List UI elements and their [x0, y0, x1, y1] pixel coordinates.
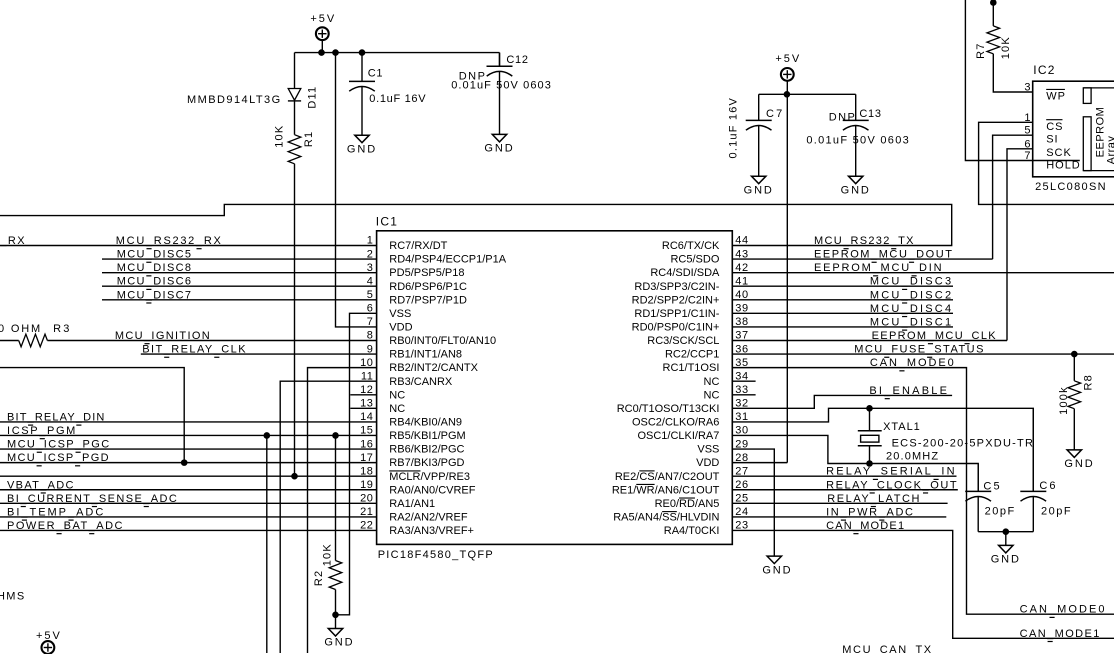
net label VBAT_ADC [7, 479, 75, 493]
svg-text:MCU_ICSP_PGD: MCU_ICSP_PGD [7, 452, 110, 464]
svg-text:CAN_MODE0: CAN_MODE0 [1020, 604, 1107, 616]
net label MCU_ICSP_PGD [7, 452, 110, 466]
resistor R2 value 10K [321, 543, 333, 566]
ground symbol under C13 [841, 176, 871, 196]
svg-text:RC0/T1OSO/T13CKI: RC0/T1OSO/T13CKI [617, 403, 720, 415]
capacitor C13 reference [859, 108, 881, 120]
wire pin 10 CANTX down off-page [308, 368, 377, 653]
capacitor C6 symbol [1020, 408, 1046, 531]
svg-text:RA1/AN1: RA1/AN1 [389, 498, 435, 510]
resistor R8 value 100k [1058, 386, 1070, 415]
junction dot right rail [784, 92, 790, 98]
ground symbol under C12 [484, 134, 514, 154]
svg-text:GND: GND [347, 143, 377, 155]
IC1 left pin labels and numbers 1-22 [360, 235, 507, 537]
net label MCU_ICSP_PGC [7, 439, 111, 453]
op IC2 25LC080 body [1033, 81, 1114, 177]
IC2 overlines (WP, CS, HOLD) [1033, 89, 1080, 160]
resistor R3 zigzag (0 OHM) [19, 334, 48, 347]
junction dot C5/C6 ground [1003, 529, 1009, 535]
svg-text:MCU_RS232_TX: MCU_RS232_TX [814, 235, 915, 247]
svg-text:RD2/SPP2/C2IN+: RD2/SPP2/C2IN+ [632, 294, 720, 306]
wire IC2 SCK (pin 6) to EEPROM_MCU_CLK [1007, 149, 1033, 341]
svg-text:NC: NC [704, 389, 720, 401]
svg-text:RB5/KBI1/PGM: RB5/KBI1/PGM [389, 430, 465, 442]
junction dot crystal bottom [867, 461, 873, 467]
svg-text:ECS-200-20-5PXDU-TR: ECS-200-20-5PXDU-TR [892, 437, 1035, 449]
junction dot PGD branch [181, 460, 187, 466]
svg-text:CS: CS [1046, 121, 1063, 133]
svg-text:IN_PWR_ADC: IN_PWR_ADC [826, 506, 915, 518]
svg-text:BI_ENABLE: BI_ENABLE [869, 385, 949, 397]
wire R7 top [992, 0, 994, 26]
junction dot ICSP_PGM/off-page drop [264, 433, 270, 439]
net label OHMS (cut at left edge) [0, 590, 26, 602]
svg-text:NC: NC [704, 376, 720, 388]
resistor R8 zigzag [1068, 381, 1081, 409]
svg-text:R2: R2 [313, 570, 325, 586]
capacitor C12 symbol [487, 53, 513, 135]
junction dot R1/MCLR [292, 473, 298, 479]
svg-text:MCU_DISC4: MCU_DISC4 [870, 303, 953, 315]
wire IC2 CS (pin 1) to right edge via bottom [979, 122, 1114, 204]
wire net MCU_IGNITION to pin 8 [47, 339, 376, 341]
svg-text:20pF: 20pF [985, 505, 1016, 517]
wire pin 28 VDD to +5V drop [732, 462, 787, 464]
svg-text:RD4/PSP4/ECCP1/P1A: RD4/PSP4/ECCP1/P1A [389, 254, 506, 266]
crystal XTAL1 reference [883, 421, 921, 433]
svg-text:CAN_MODE1: CAN_MODE1 [826, 520, 905, 532]
svg-text:RD6/PSP6/P1C: RD6/PSP6/P1C [389, 281, 467, 293]
svg-text:MCU_DISC8: MCU_DISC8 [117, 262, 193, 274]
capacitor C12 reference [506, 54, 528, 66]
net label POWER_BAT_ADC [7, 520, 124, 534]
svg-text:C7: C7 [766, 108, 784, 120]
wire net CAN_MODE0 (pin 35) down [732, 368, 1114, 615]
net label MCU_DISC2 [870, 289, 953, 303]
wire net MCU_DISC2 (pin 40) [732, 299, 953, 301]
resistor R1 value 10K [274, 125, 286, 148]
junction dot R2/VSS/ground [333, 612, 339, 618]
svg-text:C13: C13 [859, 108, 881, 120]
ground symbol under C5/C6 [991, 545, 1021, 565]
net label MCU_FUSE_STATUS [854, 344, 985, 358]
svg-text:IC2: IC2 [1033, 63, 1055, 77]
IC2 pin labels WP CS SI SCK HOLD and numbers [1024, 82, 1080, 172]
power +5V symbol (top right) [775, 53, 801, 81]
capacitor C1 value 0.1uF 16V [369, 93, 426, 105]
wire net EEPROM_MCU_DOUT (pin 43) [732, 258, 992, 260]
wire net MCU_DISC6 to pin 4 [102, 285, 377, 287]
svg-text:GND: GND [1064, 458, 1094, 470]
resistor R2 zigzag [329, 561, 342, 590]
net label BIT_RELAY_DIN [7, 411, 106, 425]
wire net MCU_IGNITION left segment [0, 339, 19, 341]
svg-text:20pF: 20pF [1041, 505, 1072, 517]
svg-text:20.0MHZ: 20.0MHZ [886, 450, 939, 462]
svg-text:VDD: VDD [696, 457, 719, 469]
pin 34 NC stub [732, 380, 755, 382]
wire net POWER_BAT_ADC to pin 22 [0, 529, 377, 531]
svg-text:RC1/T1OSI: RC1/T1OSI [663, 362, 720, 374]
svg-text:RC2/CCP1: RC2/CCP1 [665, 349, 719, 361]
svg-text:EEPROM_MCU_CLK: EEPROM_MCU_CLK [872, 330, 997, 342]
power +5V symbol (bottom left, cut) [36, 630, 62, 654]
wire net BI_TEMP_ADC to pin 21 [0, 516, 377, 518]
svg-text:10K: 10K [1000, 36, 1012, 59]
wire rail to C12 [499, 53, 501, 67]
svg-text:RELAY_LATCH: RELAY_LATCH [827, 493, 921, 505]
wire net MCU_ICSP_PGD to pin 17 [0, 462, 377, 464]
wire pin 6 VSS to ground bus [336, 313, 377, 614]
svg-text:GND: GND [744, 184, 774, 196]
wire pin 30 OSC1 to crystal bottom rail [732, 435, 978, 491]
net label BI_TEMP_ADC [7, 506, 105, 520]
wire R7 to IC2 WP pin 3 [993, 54, 1032, 92]
svg-text:RA3/AN3/VREF+: RA3/AN3/VREF+ [389, 525, 474, 537]
svg-text:MCU_DISC3: MCU_DISC3 [870, 276, 953, 288]
svg-text:IC1: IC1 [376, 215, 398, 229]
wire IC2 SI (pin 5) to EEPROM_MCU_DOUT [993, 135, 1033, 259]
capacitor C12 value 0.01uF 50V 0603 [451, 80, 552, 92]
capacitor C6 reference [1039, 480, 1057, 492]
svg-text:BI_CURRENT_SENSE_ADC: BI_CURRENT_SENSE_ADC [7, 493, 178, 505]
svg-text:MCU_RS232_RX: MCU_RS232_RX [116, 235, 223, 247]
wire C5/C6 ground bus [978, 531, 1033, 533]
svg-text:10K: 10K [321, 543, 333, 566]
svg-text:0.01uF 50V 0603: 0.01uF 50V 0603 [451, 80, 552, 92]
wire R8 to ground [1073, 409, 1075, 450]
wire rail to diode D11 [294, 53, 296, 89]
net label CAN_MODE1 (bottom right) [1020, 628, 1101, 642]
wire net MCU_DISC1 (pin 38) [732, 326, 953, 328]
wire net MCU_DISC3 (pin 41) [732, 285, 953, 287]
svg-text:VSS: VSS [697, 444, 719, 456]
resistor R8 reference [1083, 374, 1095, 390]
IC2 EEPROM array block [1083, 88, 1114, 171]
net label MCU_RS232_RX (pin 1) [116, 235, 223, 249]
IC1 active-low overlines (MCLR, CS, WR, RD, SS) [389, 471, 695, 512]
power +5V symbol (top left) [310, 13, 336, 40]
net label MCU_DISC3 [870, 276, 953, 290]
wire ICSP_PGM drop off-page [266, 435, 268, 653]
wire dot to ground [1005, 532, 1007, 546]
capacitor C7 value 0.1uF 16V (rotated) [728, 97, 740, 159]
svg-text:RD0/PSP0/C1IN+: RD0/PSP0/C1IN+ [632, 322, 720, 334]
diode D11 value label MMBD914LT3G [187, 94, 282, 106]
wire net EEPROM_MCU_CLK (pin 37) [732, 339, 1007, 341]
wire pin 31 OSC2 to crystal top rail [732, 408, 1033, 491]
net label BI_ENABLE [869, 385, 949, 399]
net label RELAY_SERIAL_IN [826, 466, 957, 480]
svg-text:+5V: +5V [310, 13, 336, 25]
svg-text:RC7/RX/DT: RC7/RX/DT [389, 240, 447, 252]
wire pin 11 CANRX down off-page [280, 381, 376, 653]
svg-text:NC: NC [389, 403, 405, 415]
capacitor C7 symbol [746, 94, 772, 176]
svg-text:ICSP_PGM: ICSP_PGM [7, 425, 77, 437]
junction dot rail/VDD drop [333, 50, 339, 56]
svg-text:BIT_RELAY_CLK: BIT_RELAY_CLK [142, 344, 247, 356]
capacitor C12 DNP label [459, 70, 487, 82]
svg-text:RA2/AN2/VREF: RA2/AN2/VREF [389, 512, 468, 524]
net label MCU_IGNITION [115, 330, 211, 344]
wire net MCU_DISC4 (pin 39) [732, 312, 953, 314]
wire net MCU_DISC5 to pin 2 [102, 258, 377, 260]
net label MCU_RS232_TX [814, 235, 915, 249]
ground symbol under C7 [744, 176, 774, 196]
svg-text:PD5/PSP5/P18: PD5/PSP5/P18 [389, 267, 464, 279]
crystal value ECS-200-20-5PXDU-TR [892, 437, 1035, 449]
net label EEPROM_MCU_CLK [872, 330, 997, 344]
wire net CAN_MODE1 (pin 23) down [732, 530, 1114, 638]
svg-text:+5V: +5V [36, 630, 62, 642]
svg-text:+5V: +5V [775, 53, 801, 65]
svg-text:RA0/AN0/CVREF: RA0/AN0/CVREF [389, 484, 475, 496]
svg-text:VSS: VSS [389, 308, 411, 320]
svg-text:RE1/WR/AN6/C1OUT: RE1/WR/AN6/C1OUT [612, 484, 720, 496]
pin 33 NC stub [732, 394, 755, 396]
net label MCU_DISC6 [117, 276, 193, 290]
capacitor C13 symbol [843, 94, 869, 176]
svg-text:RD3/SPP3/C2IN-: RD3/SPP3/C2IN- [634, 281, 719, 293]
ground symbol below R2 [324, 629, 354, 649]
net label MCU_CAN_TX (bottom, cut) [842, 644, 932, 654]
svg-text:R1: R1 [303, 131, 315, 147]
capacitor C5 value 20pF [985, 505, 1016, 517]
svg-text:EEPROM_MCU_DOUT: EEPROM_MCU_DOUT [814, 249, 954, 261]
svg-text:RE2/CS/AN7/C2OUT: RE2/CS/AN7/C2OUT [615, 471, 720, 483]
svg-text:CAN_MODE1: CAN_MODE1 [1020, 628, 1101, 640]
svg-text:C6: C6 [1039, 480, 1057, 492]
net label EEPROM_MCU_DIN [814, 262, 943, 276]
svg-text:25LC080SN: 25LC080SN [1035, 181, 1107, 193]
svg-text:XTAL1: XTAL1 [883, 421, 921, 433]
svg-text:MCLR/VPP/RE3: MCLR/VPP/RE3 [389, 471, 470, 483]
svg-text:WP: WP [1046, 91, 1066, 103]
svg-text:100k: 100k [1058, 386, 1070, 415]
IC2 value label 25LC080SN [1035, 181, 1107, 193]
capacitor C13 DNP label [829, 111, 857, 123]
net label CAN_MODE0 (bottom right) [1020, 604, 1107, 618]
resistor R1 zigzag [288, 135, 301, 164]
svg-text:R8: R8 [1083, 374, 1095, 390]
wire net MCLR to pin 18 [0, 475, 377, 477]
svg-text:BIT_RELAY_DIN: BIT_RELAY_DIN [7, 411, 106, 423]
svg-text:RELAY_SERIAL_IN: RELAY_SERIAL_IN [826, 466, 957, 478]
svg-text:RB4/KBI0/AN9: RB4/KBI0/AN9 [389, 417, 462, 429]
junction dot ICSP_PGM/R2 [333, 433, 339, 439]
svg-text:VDD: VDD [389, 322, 412, 334]
wire R1 to MCLR net (pin 18 row) [294, 164, 296, 476]
junction dot R8/FUSE_STATUS [1072, 351, 1078, 357]
wire net BIT_RELAY_CLK to pin 9 [141, 353, 377, 355]
capacitor C1 symbol [349, 53, 375, 136]
net label CAN_MODE0 (pin 35) [870, 357, 956, 371]
svg-text:0.01uF 50V 0603: 0.01uF 50V 0603 [806, 135, 910, 147]
net label MCU_DISC5 [117, 249, 193, 263]
svg-text:HOLD: HOLD [1046, 160, 1081, 172]
capacitor C7 reference [766, 108, 784, 120]
svg-text:MCU_ICSP_PGC: MCU_ICSP_PGC [7, 439, 111, 451]
svg-text:RB2/INT2/CANTX: RB2/INT2/CANTX [389, 362, 478, 374]
resistor R7 value 10K [1000, 36, 1012, 59]
svg-text:MCU_FUSE_STATUS: MCU_FUSE_STATUS [854, 344, 985, 356]
wire R2 to ground junction [335, 590, 337, 629]
svg-text:R3: R3 [53, 323, 71, 335]
wire net MCU_ICSP_PGC to pin 16 [0, 448, 377, 450]
IC1 value label PIC18F4580_TQFP [378, 549, 494, 561]
svg-text:EEPROM_MCU_DIN: EEPROM_MCU_DIN [814, 262, 943, 274]
wire net ICSP_PGM to pin 15 [0, 434, 377, 436]
net label MCU_DISC8 [117, 262, 193, 276]
pin 12 NC stub [350, 394, 376, 396]
svg-text:MCU_DISC1: MCU_DISC1 [870, 316, 953, 328]
junction dot crystal top [867, 406, 873, 412]
svg-text:RS232_RX: RS232_RX [0, 235, 26, 247]
IC1 reference label [376, 215, 398, 229]
resistor R3 reference [53, 323, 71, 335]
wire net VBAT_ADC to pin 19 [0, 489, 377, 491]
capacitor C5 reference [983, 480, 1001, 492]
svg-text:PIC18F4580_TQFP: PIC18F4580_TQFP [378, 549, 494, 561]
svg-text:GND: GND [324, 637, 354, 649]
svg-text:RA4/T0CKI: RA4/T0CKI [664, 525, 720, 537]
IC1 right pin labels and numbers 44-23 [612, 235, 749, 537]
wire VDD drop to pin 7 [336, 53, 377, 327]
svg-text:RE0/RD/AN5: RE0/RD/AN5 [655, 498, 720, 510]
svg-text:MCU_DISC2: MCU_DISC2 [870, 289, 953, 301]
net label ICSP_PGM [7, 425, 77, 439]
svg-text:0.1uF 16V: 0.1uF 16V [728, 97, 740, 159]
svg-text:RB1/INT1/AN8: RB1/INT1/AN8 [389, 349, 462, 361]
net label MCU_DISC7 [117, 289, 193, 303]
net label CAN_MODE1 (pin 23) [826, 520, 905, 534]
wire +5V rail (right) [759, 93, 856, 95]
svg-text:GND: GND [762, 564, 792, 576]
svg-text:SCK: SCK [1046, 147, 1072, 159]
wire +5V drop to pin 28 VDD [786, 94, 788, 462]
svg-text:Array: Array [1105, 136, 1114, 165]
ground symbol under R8 [1064, 450, 1094, 470]
svg-text:RA5/AN4/SS/HLVDIN: RA5/AN4/SS/HLVDIN [613, 512, 719, 524]
svg-text:RC4/SDI/SDA: RC4/SDI/SDA [650, 267, 720, 279]
diode D11 reference label [307, 86, 319, 109]
wire net BI_ENABLE (pin 32) [732, 395, 952, 408]
wire ICSP_PGM to R2 [335, 435, 337, 560]
resistor R1 reference [303, 131, 315, 147]
svg-text:10K: 10K [274, 125, 286, 148]
ground symbol for pin 29 [762, 556, 792, 576]
svg-text:RELAY_CLOCK_OUT: RELAY_CLOCK_OUT [826, 479, 958, 491]
net label RELAY_LATCH [827, 493, 921, 507]
svg-text:OSC2/CLKO/RA6: OSC2/CLKO/RA6 [632, 417, 719, 429]
svg-text:SI: SI [1046, 133, 1058, 145]
wire pin 29 VSS to ground [732, 449, 774, 556]
svg-text:RB3/CANRX: RB3/CANRX [389, 376, 453, 388]
svg-text:NC: NC [389, 389, 405, 401]
pin 13 NC stub [350, 407, 376, 409]
IC2 reference label [1033, 63, 1055, 77]
svg-text:RB7/BKI3/PGD: RB7/BKI3/PGD [389, 457, 464, 469]
capacitor C5 symbol [965, 464, 991, 532]
svg-text:RB0/INT0/FLT0/AN10: RB0/INT0/FLT0/AN10 [389, 335, 496, 347]
svg-text:0 OHM: 0 OHM [0, 323, 42, 335]
svg-text:C1: C1 [368, 68, 384, 80]
junction dot rail/stem [319, 50, 325, 56]
svg-text:VBAT_ADC: VBAT_ADC [7, 479, 75, 491]
net label EEPROM_MCU_DOUT [814, 249, 954, 263]
wire net MCU_FUSE_STATUS (pin 36) to right edge [732, 353, 1114, 355]
IC2 EEPROM array text [1094, 107, 1114, 165]
svg-text:RC5/SDO: RC5/SDO [670, 254, 719, 266]
wire +5V stem (right) [786, 80, 788, 94]
wire net RELAY_LATCH (pin 25) [732, 502, 947, 504]
wire branch to MCU_ICSP_PGD (L from left edge) [0, 368, 184, 463]
svg-text:R7: R7 [975, 42, 987, 58]
svg-text:C12: C12 [506, 54, 528, 66]
resistor R7 zigzag [987, 26, 1000, 54]
net label IN_PWR_ADC [826, 506, 915, 520]
resistor R7 reference [975, 42, 987, 58]
svg-text:D11: D11 [307, 86, 319, 109]
wire +5V stem [321, 39, 323, 52]
wire net MCU_RS232_TX route [0, 204, 952, 245]
ground symbol under C1 [347, 135, 377, 155]
net label RS232_RX (cut at left edge) [0, 235, 26, 247]
svg-text:OSC1/CLKI/RA7: OSC1/CLKI/RA7 [637, 430, 719, 442]
svg-text:RB6/KBI2/PGC: RB6/KBI2/PGC [389, 444, 464, 456]
net label BIT_RELAY_CLK [142, 344, 247, 358]
crystal frequency 20.0MHZ [886, 450, 939, 462]
svg-text:RD1/SPP1/C1IN-: RD1/SPP1/C1IN- [634, 308, 719, 320]
svg-text:MCU_IGNITION: MCU_IGNITION [115, 330, 211, 342]
svg-text:MCU_DISC5: MCU_DISC5 [117, 249, 193, 261]
svg-text:CAN_MODE0: CAN_MODE0 [870, 357, 956, 369]
svg-text:GND: GND [841, 184, 871, 196]
svg-text:OHMS: OHMS [0, 590, 26, 602]
wire net MCU_DISC8 to pin 3 [102, 272, 377, 274]
capacitor C13 value 0.01uF 50V 0603 [806, 135, 910, 147]
capacitor C1 reference [368, 68, 384, 80]
svg-text:GND: GND [991, 554, 1021, 566]
svg-text:MCU_CAN_TX: MCU_CAN_TX [842, 644, 932, 654]
capacitor C6 value 20pF [1041, 505, 1072, 517]
svg-text:RD7/PSP7/P1D: RD7/PSP7/P1D [389, 294, 467, 306]
wire net RELAY_CLOCK_OUT (pin 26) [732, 489, 958, 491]
wire net IN_PWR_ADC (pin 24) [732, 516, 946, 518]
wire FUSE_STATUS to R8 [1073, 354, 1075, 381]
crystal XTAL1 symbol [858, 408, 882, 463]
net label RELAY_CLOCK_OUT [826, 479, 958, 493]
resistor R2 reference [313, 570, 325, 586]
net label MCU_DISC1 [870, 316, 953, 330]
wire net EEPROM_MCU_DIN (pin 42) to right edge [732, 272, 1114, 274]
svg-text:C5: C5 [983, 480, 1001, 492]
svg-text:GND: GND [484, 143, 514, 155]
op IC1 PIC18F4580 body [377, 231, 733, 545]
svg-text:DNP: DNP [829, 111, 857, 123]
net label BI_CURRENT_SENSE_ADC [7, 493, 178, 507]
svg-text:BI_TEMP_ADC: BI_TEMP_ADC [7, 506, 105, 518]
junction dot R7 top (page edge) [991, 0, 997, 5]
svg-text:MCU_DISC6: MCU_DISC6 [117, 276, 193, 288]
svg-text:MMBD914LT3G: MMBD914LT3G [187, 94, 282, 106]
svg-text:POWER_BAT_ADC: POWER_BAT_ADC [7, 520, 124, 532]
wire net BIT_RELAY_DIN to pin 14 [0, 421, 377, 423]
resistor R3 value 0 OHM [0, 323, 42, 335]
junction dot rail/C1 [359, 50, 365, 56]
